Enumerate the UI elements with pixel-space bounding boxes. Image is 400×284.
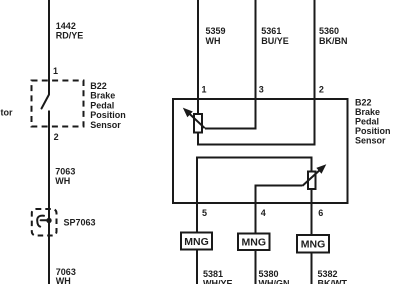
svg-text:WH: WH [206,36,221,46]
label 7063 WH (upper) [55,166,75,186]
label 5382 BK/WT [318,269,348,284]
svg-text:Pedal: Pedal [355,116,379,126]
svg-text:3: 3 [259,85,264,95]
svg-text:5: 5 [202,208,207,218]
label 1442 RD/YE [56,21,84,41]
svg-text:5361: 5361 [261,26,281,36]
label B22 Brake Pedal Position Sensor (right) [355,97,391,145]
svg-text:B22: B22 [355,97,372,107]
svg-text:B22: B22 [90,81,107,91]
potentiometer R2 wiper arrow [303,165,326,186]
svg-text:Brake: Brake [355,107,380,117]
wire 5361 BU/YE (pin 3 of sensor, to wiper of R1) [205,0,256,129]
wire 5359 WH (pin 1 of sensor) [197,0,199,114]
svg-text:1442: 1442 [56,21,76,31]
svg-text:2: 2 [319,85,324,95]
svg-text:1: 1 [202,85,207,95]
label 5359 WH [206,26,226,46]
potentiometer R1 wiper arrow [184,109,205,129]
svg-text:Sensor: Sensor [90,120,121,130]
svg-text:Position: Position [355,126,391,136]
svg-text:BK/BN: BK/BN [319,36,348,46]
svg-text:MNG: MNG [301,238,326,250]
svg-text:Pedal: Pedal [90,100,114,110]
svg-text:SP7063: SP7063 [64,218,96,228]
svg-text:RD/YE: RD/YE [56,30,84,40]
potentiometer R1 body [194,114,202,133]
connector MNG (pin 6 wire) [297,235,329,253]
svg-text:WH/YE: WH/YE [203,278,233,284]
svg-text:WH/GN: WH/GN [259,278,290,284]
wire 7063 WH (switch lower contact down through splice to bottom) [48,111,50,284]
svg-text:BK/WT: BK/WT [318,278,348,284]
svg-text:MNG: MNG [242,237,267,249]
svg-text:7063: 7063 [55,166,75,176]
switch blade (brake pedal position switch) [42,95,50,109]
svg-text:4: 4 [261,208,266,218]
svg-text:5380: 5380 [259,269,279,279]
svg-text:5381: 5381 [203,269,223,279]
svg-text:WH: WH [56,276,71,284]
svg-text:MNG: MNG [184,236,209,248]
svg-text:Brake: Brake [90,91,115,101]
wire 5360 BK/BN (pin 2 of sensor, to bottom of R1) [198,0,315,145]
potentiometer R2 body [308,172,316,190]
svg-text:BU/YE: BU/YE [261,36,289,46]
wire pin5 to top of R2 (internal) [197,158,312,284]
label 5361 BU/YE [261,26,289,46]
svg-text:5360: 5360 [319,26,339,36]
wire pin4 to wiper of R2 (internal) [256,186,303,284]
connector MNG (pin 4 wire) [238,234,270,251]
svg-text:6: 6 [318,208,323,218]
svg-text:5359: 5359 [206,26,226,36]
svg-text:1: 1 [53,66,58,76]
svg-text:Sensor: Sensor [355,135,386,145]
wire 1442 RD/YE (left vertical, top segment + switch upper contact) [48,0,50,95]
wire pin6 from bottom of R2 [311,189,313,284]
svg-text:tor: tor [1,108,13,118]
label 5360 BK/BN [319,26,348,46]
label B22 Brake Pedal Position Sensor (left) [90,81,126,130]
splice SP7063 (dashed box) [32,209,57,236]
svg-text:2: 2 [54,132,59,142]
connector MNG (pin 5 wire) [181,233,212,250]
svg-text:Position: Position [90,110,126,120]
switch outline B22 (dashed box) [32,81,84,127]
label 5381 WH/YE [203,269,233,284]
splice SP7063 pigtail [37,216,49,227]
sensor box B22 (solid outline) [173,99,348,203]
svg-text:5382: 5382 [318,269,338,279]
label 7063 WH (lower) [56,267,76,284]
splice SP7063 junction dot [46,218,51,223]
svg-text:WH: WH [55,176,70,186]
label 5380 WH/GN [259,269,290,284]
